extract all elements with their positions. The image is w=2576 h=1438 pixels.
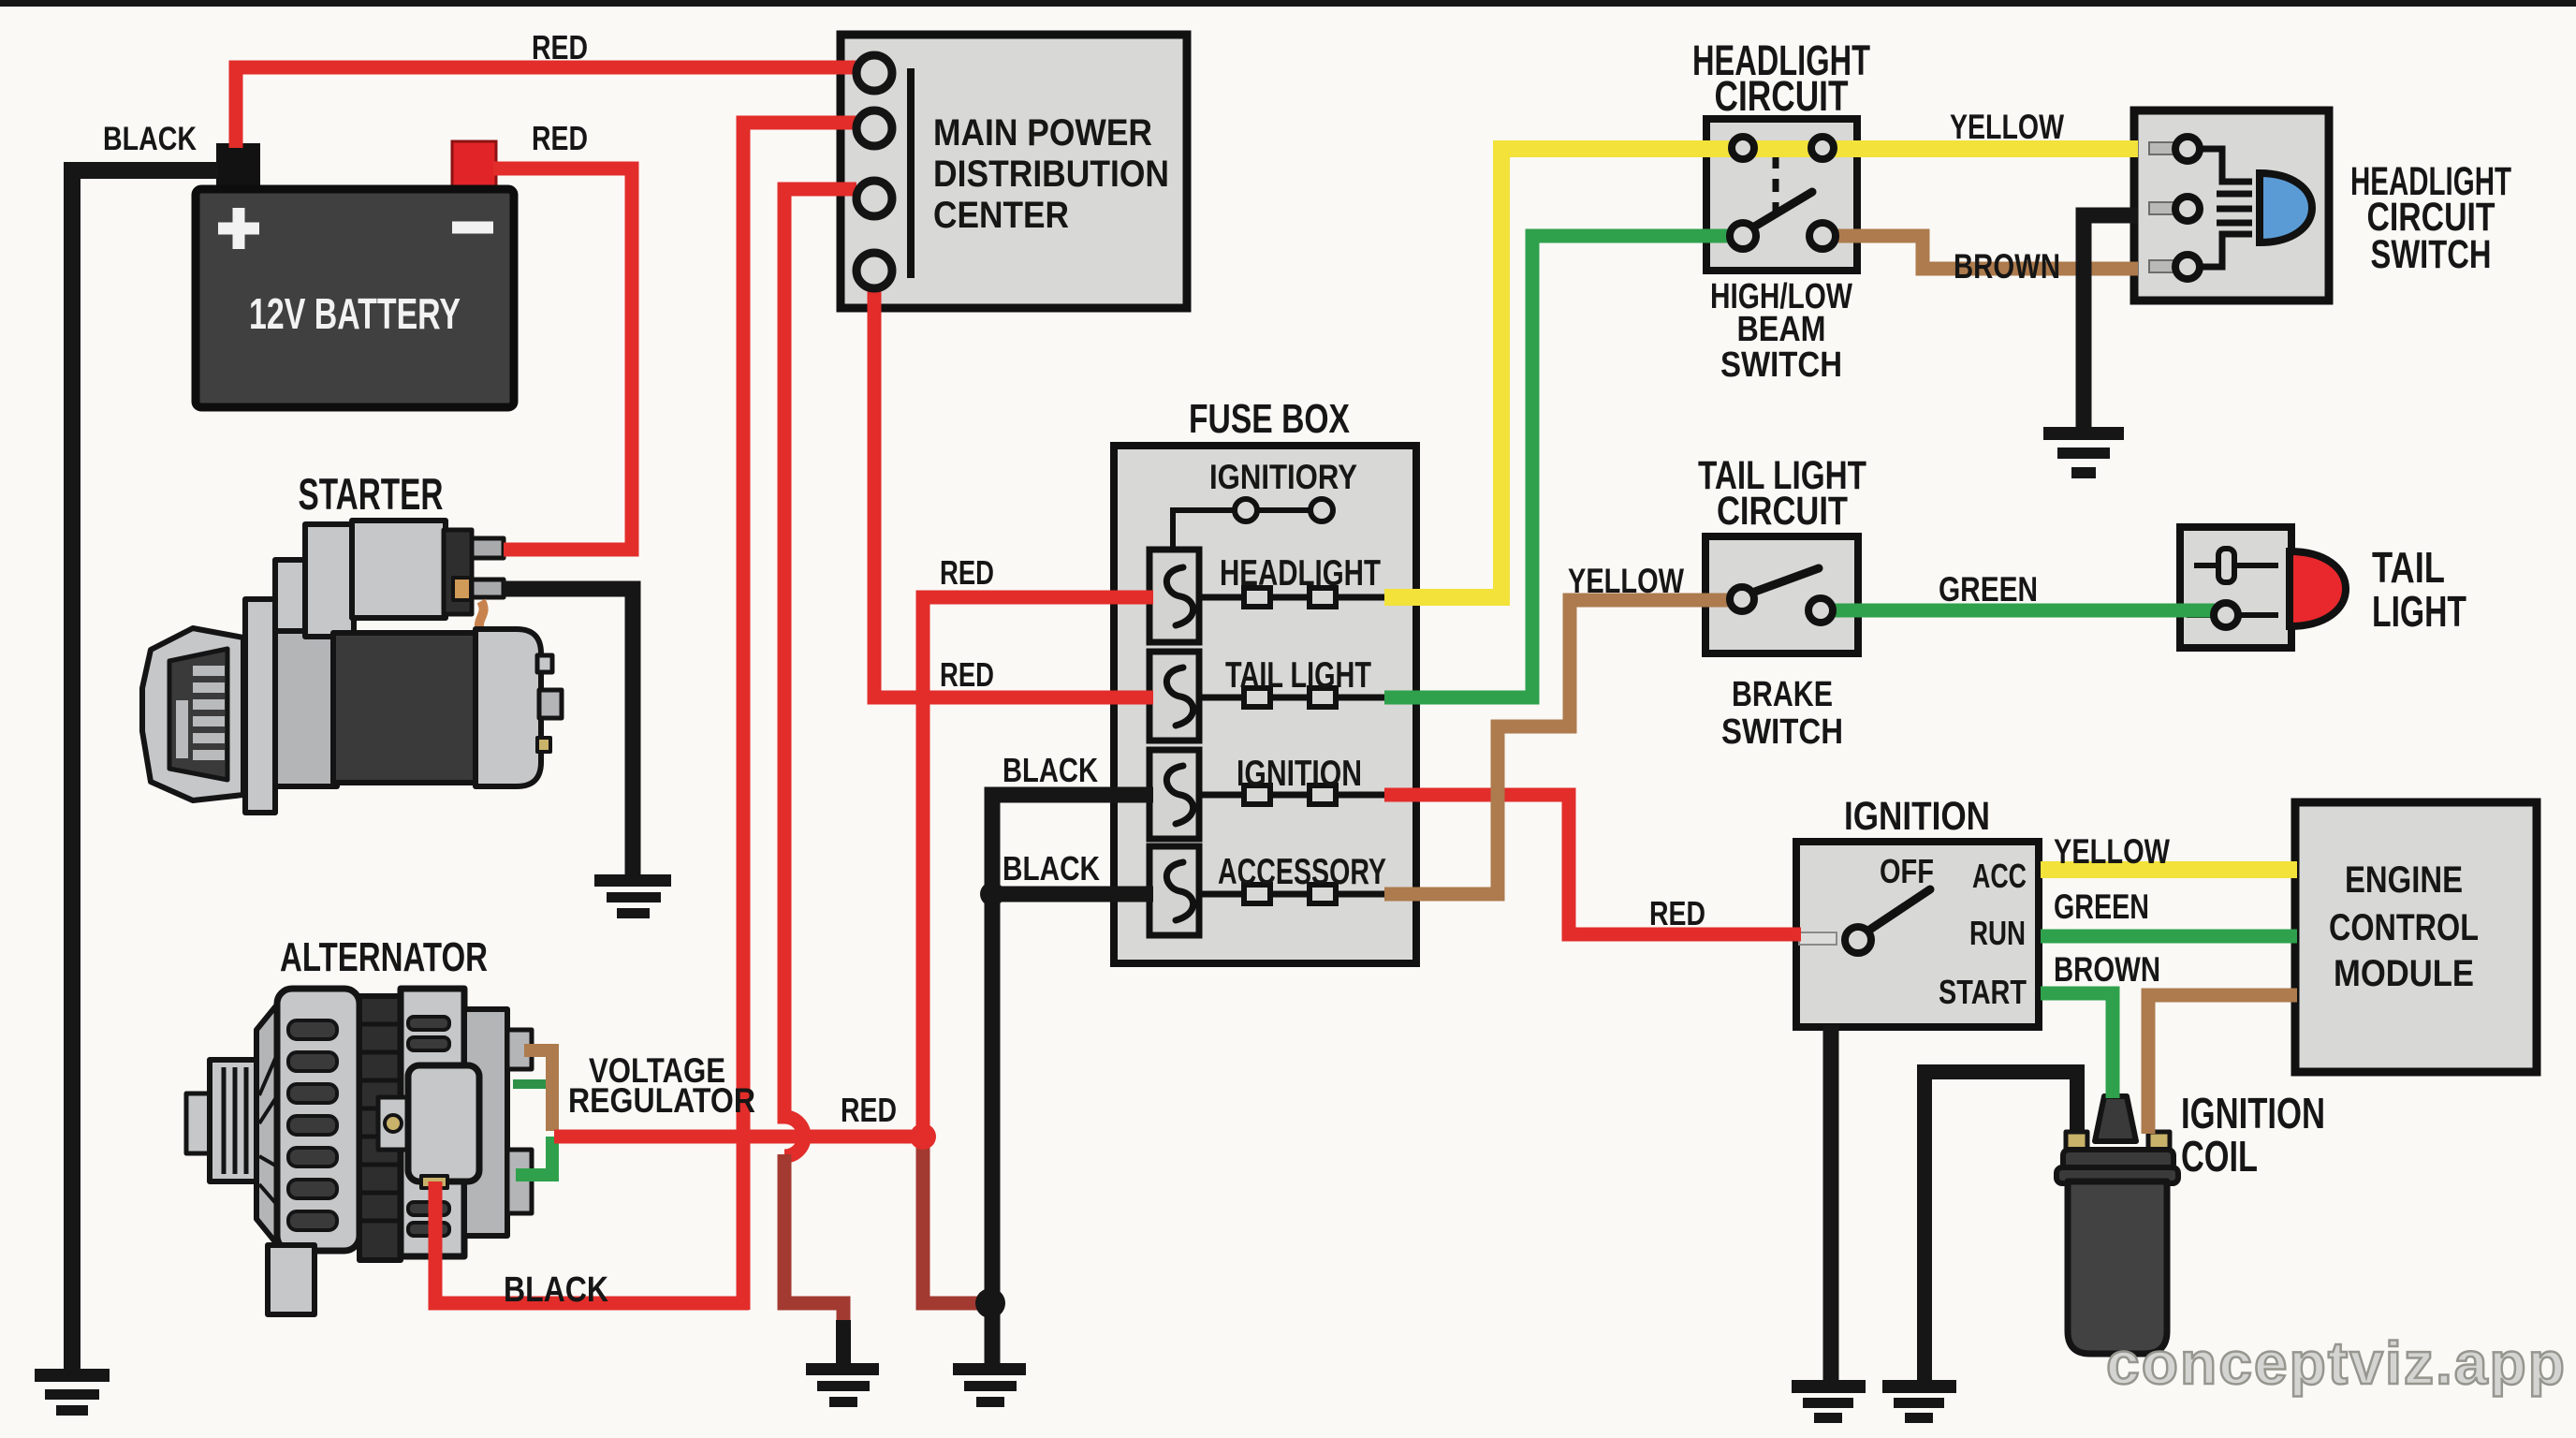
tail light row trace [1199,695,1384,701]
ground symbol maroon wire [806,1363,879,1407]
wire green alternator loop [516,1137,552,1175]
fuse F2 tail light [1149,652,1199,741]
battery negative terminal (black) [216,143,260,193]
distribution terminal circle 4 [856,253,892,288]
starter terminal stud upper [472,538,504,558]
brake switch lever [1752,568,1819,593]
ignition row trace [1199,792,1384,799]
battery positive terminal (red) [452,141,496,193]
svg-text:YELLOW: YELLOW [1950,108,2064,146]
wire brown accessory fuse to brake switch [1384,600,1734,894]
battery plus symbol [218,208,259,249]
headlight row trace [1199,594,1384,601]
tail light red dome [2290,551,2346,626]
starter end tabs [537,655,552,672]
svg-text:BLACK: BLACK [504,1270,608,1310]
fuse box [1114,446,1416,963]
wire green start to ignition coil [2041,993,2113,1098]
wire yellow headlight fuse to beam switch [1384,149,2138,597]
ground symbol fuse black wire [953,1363,1026,1407]
starter end cap [476,629,541,786]
svg-text:BROWN: BROWN [2054,950,2160,989]
svg-text:IGNITION: IGNITION [2181,1089,2325,1137]
svg-text:RUN: RUN [1969,914,2026,952]
alternator fan [256,994,285,1255]
coil flange upper [2063,1150,2173,1169]
ignitiory circle right [1310,499,1333,521]
ignitiory circuit trace [1173,510,1311,551]
distribution terminal circle 3 [856,181,892,216]
tail light filament symbol [2194,563,2278,568]
svg-text:BLACK: BLACK [1003,849,1100,888]
alternator G1 illustration [186,989,532,1314]
ignition switch input pin [1799,932,1837,945]
headlamp traces [2200,149,2252,267]
wire dark red junction to black ground line [923,1137,985,1303]
wire brown alternator to junction [524,1050,552,1131]
svg-text:CIRCUIT: CIRCUIT [1715,72,1849,120]
svg-text:BROWN: BROWN [1954,247,2060,286]
starter copper strap [479,601,484,635]
fuse F4 accessory [1149,846,1199,935]
ground symbol ignition switch [1792,1380,1866,1423]
tail light lower trace [2187,612,2278,618]
svg-text:ALTERNATOR: ALTERNATOR [280,934,488,980]
wire red alternator output to junction [435,1181,749,1303]
svg-text:START: START [1939,973,2027,1011]
wire brown beam switch to headlamp [1831,236,2138,269]
svg-text:SWITCH: SWITCH [1721,712,1843,752]
high/low beam switch box [1706,119,1857,271]
wire brown ecm to ignition coil [2148,995,2297,1134]
tail light terminal [2214,603,2238,627]
coil terminal left [2066,1132,2087,1152]
brake switch box [1705,536,1858,653]
wire green tail fuse to beam switch [1384,236,1734,697]
wire black battery to ground [72,170,218,1369]
high/low switch dashed contact [1754,145,1775,152]
starter motor body [333,633,476,783]
starter solenoid end cap [444,530,472,614]
wire green brake switch to tail light [1828,604,2218,618]
svg-text:BRAKE: BRAKE [1732,675,1833,714]
wire red ignition fuse to ignition switch [1384,795,1801,934]
wire black ignition switch to ground [1823,1025,1839,1382]
wire red distribution circle 3 with hop [784,189,856,1156]
svg-text:12V BATTERY: 12V BATTERY [249,289,461,338]
voltage regulator bracket [378,1097,410,1150]
tail light box [2180,527,2291,648]
ignition switch box [1796,842,2039,1027]
wire red regulator output horizontal [554,1130,925,1144]
starter nose slats [176,666,225,760]
brake switch terminal right [1808,598,1833,623]
main power distribution center divider bar [907,68,915,278]
svg-text:SWITCH: SWITCH [2371,232,2492,277]
battery minus symbol [452,222,493,234]
ignition coil illustration [2056,1096,2178,1354]
svg-text:CONTROL: CONTROL [2329,907,2479,948]
headlamp pins [2149,142,2175,154]
svg-text:ACCESSORY: ACCESSORY [1218,852,1386,892]
fuse F1 headlight [1149,550,1199,642]
ground symbol coil loop [1882,1380,1956,1423]
distribution terminal circle 1 [856,55,892,91]
wire dark red hop tail to ground [784,1154,843,1324]
high/low switch lever [1747,192,1812,231]
alternator rear housing [401,989,464,1256]
svg-text:MAIN POWER: MAIN POWER [933,112,1152,154]
beam switch terminal top-right [1811,137,1834,159]
svg-text:RED: RED [1649,894,1705,932]
ignition switch lever [1863,889,1930,934]
svg-text:RED: RED [532,119,588,157]
wire yellow acc to ecm [2041,861,2297,878]
svg-text:SWITCH: SWITCH [1720,345,1842,385]
svg-text:CIRCUIT: CIRCUIT [1717,489,1848,534]
svg-text:LIGHT: LIGHT [2372,587,2466,636]
beam switch terminal bottom-left [1730,223,1756,249]
svg-text:RED: RED [532,28,588,66]
accessory row trace [1199,891,1384,898]
beam switch terminal bottom-right [1809,223,1836,249]
headlamp terminal 3 [2175,255,2200,279]
coil terminal right [2148,1132,2170,1152]
starter solenoid step [305,524,354,637]
wire red distribution circle 2 down to alternator junction [743,123,856,1310]
ignitiory circle left [1235,499,1257,521]
starter nose cone [142,628,243,800]
junction dot red [910,1123,936,1150]
wire black fuse ignition input to ground [992,795,1153,1367]
brake switch terminal left [1730,587,1754,611]
svg-text:RED: RED [940,553,994,592]
headlight circuit switch box [2134,110,2329,301]
coil body [2068,1181,2167,1354]
alternator vent slots [288,1020,337,1230]
top border strip [0,0,2576,7]
svg-text:HEADLIGHT: HEADLIGHT [1220,553,1381,594]
svg-text:FUSE BOX: FUSE BOX [1189,396,1350,442]
regulator output terminal [421,1176,447,1188]
wire red distribution circle 4 to tail light fuse [874,286,1153,697]
svg-text:conceptviz.app: conceptviz.app [2106,1329,2567,1397]
svg-text:BLACK: BLACK [103,121,197,157]
coil flange lower [2056,1167,2178,1183]
alternator stator middle [359,996,401,1260]
svg-text:IGNITION: IGNITION [1844,794,1990,839]
headlamp terminal 1 [2175,137,2200,161]
distribution terminal circle 2 [856,110,892,146]
wire red junction up to headlight fuse [923,597,1153,1137]
svg-text:GREEN: GREEN [1939,570,2038,609]
headlamp blue dome [2260,173,2312,242]
svg-text:TAIL LIGHT: TAIL LIGHT [1225,655,1371,696]
wire black starter to ground [504,589,633,874]
headlamp terminal 2 [2175,197,2200,221]
fuse F3 ignition [1149,750,1199,839]
svg-text:RED: RED [940,655,994,694]
wire green alternator field stub [513,1079,548,1089]
svg-text:COIL: COIL [2181,1132,2258,1181]
svg-text:GREEN: GREEN [2054,888,2149,926]
svg-text:REGULATOR: REGULATOR [568,1081,755,1120]
wire black accessory branch [992,887,1153,902]
wire black headlamp to ground [2084,215,2138,429]
ground symbol headlamp [2043,427,2124,478]
junction dot black accessory [980,882,1004,906]
starter solenoid body [352,521,446,618]
starter drive housing [275,631,337,786]
svg-text:CENTER: CENTER [933,195,1069,236]
svg-text:IGNITIORY: IGNITIORY [1209,458,1357,496]
alternator rear bracket [464,1009,507,1236]
alternator pulley [210,1060,256,1181]
ground symbol battery [35,1369,110,1416]
starter terminal stud lower [472,580,504,597]
wire green run to ecm [2041,930,2297,944]
main power distribution center box [841,35,1187,308]
alternator shaft [186,1093,212,1153]
svg-text:OFF: OFF [1880,852,1934,890]
svg-text:ENGINE: ENGINE [2345,859,2463,901]
ground symbol starter [594,874,671,918]
svg-text:YELLOW: YELLOW [1568,562,1684,600]
svg-text:YELLOW: YELLOW [2054,832,2170,871]
svg-text:MODULE: MODULE [2334,953,2474,994]
svg-text:TAIL: TAIL [2372,543,2445,592]
coil tower [2095,1096,2136,1141]
starter copper pad [453,578,471,600]
svg-text:BLACK: BLACK [1003,751,1098,789]
starter mounting flange [245,599,275,813]
voltage regulator module [408,1065,479,1181]
svg-text:ACC: ACC [1972,857,2027,895]
alternator leg [268,1245,315,1314]
battery body [196,189,514,407]
svg-text:RED: RED [841,1091,897,1129]
starter M1 illustration [142,521,562,813]
beam switch terminal top-left [1732,137,1754,159]
wire black coil to ground loop [1925,1072,2077,1382]
wire red battery top to distribution circle 1 [236,67,856,148]
starter nose window [169,649,227,780]
svg-text:IGNITION: IGNITION [1237,754,1362,794]
alternator front housing [277,989,359,1251]
ignition switch pivot [1845,927,1871,953]
engine control module box [2295,802,2537,1072]
starter upper step [275,560,318,638]
junction dot black ground [975,1288,1005,1318]
battery B1 12V [196,141,514,407]
svg-text:STARTER: STARTER [299,469,444,519]
svg-text:DISTRIBUTION: DISTRIBUTION [933,154,1169,195]
wire red battery to starter solenoid [493,169,632,550]
svg-text:BEAM: BEAM [1737,310,1826,349]
